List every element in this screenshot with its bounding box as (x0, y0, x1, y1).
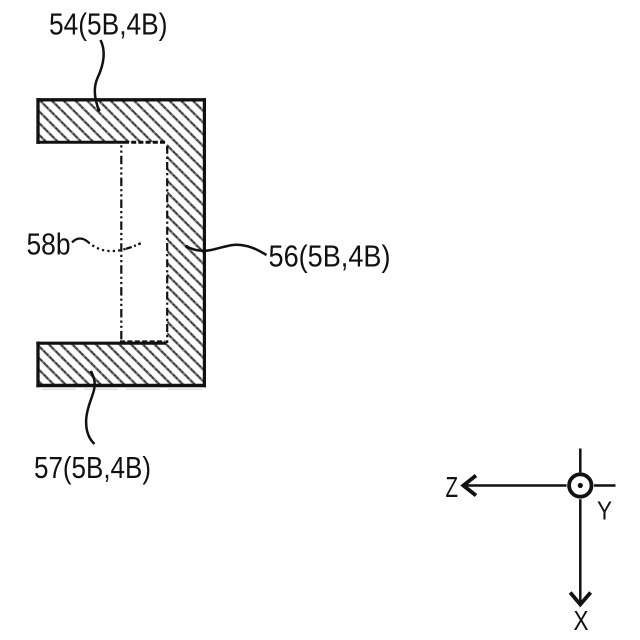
origin center dot (578, 483, 583, 488)
leader line for label 57 (86, 372, 95, 445)
bottom wall 57 outline: bottom edge (36, 384, 206, 387)
recess 58b phantom line, right side (inner edge of wall 56) (166, 144, 168, 343)
hatched C-shaped member cross-section (walls 54/56/57) (38, 100, 204, 386)
recess 58b phantom line, left side (120, 144, 122, 342)
Y axis stub right (594, 484, 616, 487)
leader 54 end blob (97, 108, 100, 111)
svg-text:58b: 58b (27, 227, 71, 262)
top wall 54 outline: top edge (36, 98, 206, 101)
X axis shaft (579, 499, 582, 603)
leader for label 58b (end stroke) (126, 243, 141, 249)
top wall left edge (36, 98, 39, 144)
leader squiggle for label 58b (solid start) (72, 239, 88, 243)
leader line for label 54 (95, 40, 104, 111)
svg-text:56(5B,4B): 56(5B,4B) (269, 239, 391, 274)
leader 57 start blob (90, 371, 93, 374)
svg-text:X: X (574, 605, 589, 636)
Z axis arrowhead (463, 476, 476, 496)
recess 58b phantom line, top (124, 141, 167, 144)
X axis arrowhead (570, 593, 590, 605)
bottom wall upper edge (36, 342, 166, 345)
leader 56 start blob (185, 245, 188, 248)
leader line for label 56 (187, 245, 267, 255)
svg-text:57(5B,4B): 57(5B,4B) (34, 450, 151, 485)
svg-text:Z: Z (446, 471, 459, 503)
coordinate origin circle (Y axis out of page) (569, 474, 591, 496)
leader for label 58b (dotted wavy part) (88, 242, 126, 251)
Y axis stub up (579, 449, 582, 473)
svg-text:54(5B,4B): 54(5B,4B) (49, 7, 168, 42)
scan shadow under bottom wall (42, 388, 204, 390)
right wall 56 outline: right edge (203, 98, 206, 387)
bottom wall left edge (36, 342, 39, 388)
Z axis shaft (465, 484, 567, 487)
top wall lower edge (solid part) (36, 141, 124, 144)
recess 58b phantom line, bottom (120, 340, 166, 343)
svg-text:Y: Y (597, 496, 612, 526)
